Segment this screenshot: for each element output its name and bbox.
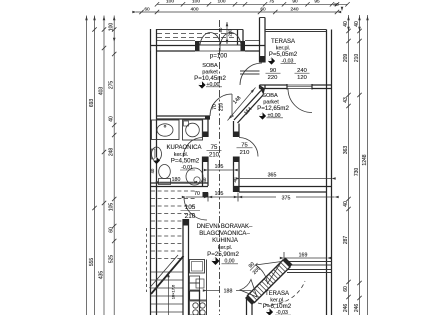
svg-text:180: 180 <box>172 177 181 183</box>
svg-text:100: 100 <box>166 0 174 5</box>
svg-text:400: 400 <box>190 7 198 13</box>
left dim chain 0 <box>86 16 88 315</box>
svg-text:95: 95 <box>314 0 320 5</box>
kitchen cabinets <box>190 276 200 283</box>
svg-text:188: 188 <box>224 289 233 295</box>
entry door swing <box>184 197 207 220</box>
svg-text:DNEVNI BORAVAK–: DNEVNI BORAVAK– <box>197 224 253 230</box>
terasa parapet top <box>265 29 327 31</box>
svg-text:80: 80 <box>218 27 223 32</box>
svg-text:ker.pl.: ker.pl. <box>218 245 232 251</box>
svg-text:100: 100 <box>192 0 200 5</box>
svg-text:75: 75 <box>211 145 218 151</box>
svg-text:TERASA: TERASA <box>271 39 295 45</box>
svg-text:P=6,10m2: P=6,10m2 <box>263 303 292 310</box>
bathroom east wall lower <box>202 157 204 187</box>
svg-text:KUPAONICA: KUPAONICA <box>167 145 202 151</box>
svg-text:105: 105 <box>215 164 224 170</box>
dim 148 along diagonal <box>228 88 256 121</box>
stairs break diagonal <box>151 256 184 294</box>
svg-text:105: 105 <box>215 191 224 197</box>
kitchen hob <box>190 300 207 315</box>
corridor width dim 105 <box>208 169 234 171</box>
top dim row 1 (partially cut) <box>157 3 348 5</box>
svg-text:40: 40 <box>109 116 115 122</box>
terasa2 door leaf 1 <box>256 262 282 284</box>
left dim chain 3 (100/275/40/248/105/525) <box>113 16 115 315</box>
svg-text:60: 60 <box>109 227 115 233</box>
terasa door swing <box>240 63 262 85</box>
stairs divider wall <box>182 219 184 315</box>
dim 188 <box>207 290 220 292</box>
entry stub cap <box>203 192 209 197</box>
stairs dashed treads (upper flight) <box>151 190 195 192</box>
svg-text:P=25,90m2: P=25,90m2 <box>207 251 239 258</box>
svg-text:P=5,05m2: P=5,05m2 <box>269 51 298 58</box>
svg-text:210: 210 <box>219 103 225 112</box>
svg-text:248: 248 <box>109 148 115 157</box>
soba10 south wall <box>157 115 211 117</box>
svg-text:100: 100 <box>217 0 225 5</box>
svg-text:287: 287 <box>343 236 349 245</box>
toilet <box>159 165 171 179</box>
pedestal sink <box>152 147 162 161</box>
terasa2 side wall <box>246 299 248 315</box>
bathroom east wall upper <box>202 119 204 137</box>
svg-text:90: 90 <box>292 0 298 5</box>
soba12 door swing <box>239 138 258 157</box>
svg-text:SOBA: SOBA <box>262 93 278 99</box>
loggia floor edge <box>157 40 195 42</box>
svg-text:220: 220 <box>228 29 233 37</box>
svg-text:-0,03: -0,03 <box>276 310 288 315</box>
svg-text:40: 40 <box>343 201 349 207</box>
left outer wall <box>150 29 152 315</box>
svg-text:693: 693 <box>89 99 95 108</box>
soba12 south wall <box>234 186 332 188</box>
french door vertical dim <box>226 22 228 44</box>
svg-text:105: 105 <box>185 204 196 211</box>
loggia right wall stub <box>237 30 239 46</box>
svg-text:p=100: p=100 <box>210 53 228 60</box>
terasa2 hatched entrance steps <box>248 260 291 303</box>
svg-text:60: 60 <box>343 286 349 292</box>
stairs walk line <box>168 272 170 315</box>
french door panel <box>200 41 241 43</box>
svg-text:TERASA: TERASA <box>265 291 289 297</box>
dashed hidden line left of stairs <box>146 228 148 292</box>
svg-text:403: 403 <box>99 87 105 96</box>
top wall right part <box>245 45 265 47</box>
svg-text:105: 105 <box>109 203 115 212</box>
right outer wall <box>326 30 328 315</box>
terasa party wall lower stub <box>259 85 261 89</box>
svg-text:KUHINJA: KUHINJA <box>212 238 238 244</box>
svg-text:60: 60 <box>260 7 266 13</box>
vanity counter <box>152 120 180 140</box>
dim 365 <box>240 178 332 180</box>
terasa window-door <box>286 84 288 90</box>
svg-text:555: 555 <box>89 258 95 267</box>
terasa2 door leaf 2 <box>240 280 257 298</box>
svg-text:40: 40 <box>150 168 155 173</box>
section dash-dot line <box>219 20 221 315</box>
bathroom south wall <box>151 182 209 184</box>
svg-text:246: 246 <box>354 304 360 313</box>
svg-text:375: 375 <box>282 196 291 202</box>
top dim row 2 (60/400/60/240) <box>136 11 337 13</box>
kitchen counter front <box>206 260 208 315</box>
right dim chain C (1248) <box>367 15 369 315</box>
svg-text:16×17,6: 16×17,6 <box>171 284 176 299</box>
french door jambs <box>195 41 200 51</box>
bathroom door swing <box>184 138 203 157</box>
svg-text:P=4,50m2: P=4,50m2 <box>171 158 200 165</box>
soba12 west wall lower <box>233 157 235 193</box>
svg-text:120: 120 <box>297 75 307 81</box>
kitchen stove block <box>190 291 200 300</box>
svg-text:40: 40 <box>333 2 339 8</box>
svg-text:363: 363 <box>343 146 349 155</box>
washing machine <box>183 120 203 140</box>
svg-text:240: 240 <box>290 7 298 13</box>
svg-text:435: 435 <box>99 271 105 280</box>
loggia top edge <box>157 29 244 31</box>
svg-text:220: 220 <box>268 75 278 81</box>
terasa party wall <box>259 18 261 63</box>
svg-text:275: 275 <box>109 81 115 90</box>
diagonal wall <box>234 91 261 121</box>
stairs solid treads <box>151 271 183 273</box>
svg-text:100: 100 <box>109 23 115 32</box>
bathroom dim 180 <box>160 181 193 183</box>
loggia dashed roof lines <box>157 33 237 35</box>
french door swing arcs <box>200 32 221 44</box>
terasa bottom wall <box>260 84 288 86</box>
svg-text:70: 70 <box>212 104 218 110</box>
left dim chain 1 (693/555) <box>94 16 96 315</box>
svg-text:BLAGOVAONICA–: BLAGOVAONICA– <box>199 231 250 237</box>
svg-text:60: 60 <box>144 7 150 13</box>
svg-text:40: 40 <box>354 21 360 27</box>
soba12 west wall upper <box>233 121 235 137</box>
svg-text:70: 70 <box>194 191 200 197</box>
svg-text:169: 169 <box>299 252 308 258</box>
right dim chain A <box>348 15 350 315</box>
svg-text:525: 525 <box>109 255 115 264</box>
terasa2 parapet walls <box>287 261 332 263</box>
svg-text:210: 210 <box>240 150 250 156</box>
svg-text:40: 40 <box>343 21 349 27</box>
svg-text:75: 75 <box>269 0 275 5</box>
svg-text:210: 210 <box>209 152 220 158</box>
soba10 door swing <box>210 94 232 116</box>
dim row 70/105/375 <box>186 196 276 198</box>
shower circle <box>186 168 203 185</box>
svg-text:209: 209 <box>343 54 349 63</box>
terasa window-door swing <box>288 89 312 113</box>
svg-text:210: 210 <box>354 54 360 63</box>
top wall left part <box>151 45 196 47</box>
left dim chain 2 (403/435) <box>103 16 105 315</box>
dim 169 <box>284 257 327 259</box>
terasa door leaf <box>240 70 260 72</box>
svg-text:1248: 1248 <box>362 154 368 165</box>
kitchen fridge <box>190 260 205 274</box>
terasa2 dashed swing <box>258 281 305 305</box>
svg-text:43: 43 <box>343 97 349 103</box>
svg-text:365: 365 <box>268 172 277 178</box>
right dim chain B <box>359 15 361 315</box>
svg-text:SOBA: SOBA <box>202 63 218 69</box>
svg-text:246: 246 <box>343 304 349 313</box>
svg-text:730: 730 <box>354 168 360 177</box>
svg-text:P=12,65m2: P=12,65m2 <box>257 105 289 112</box>
